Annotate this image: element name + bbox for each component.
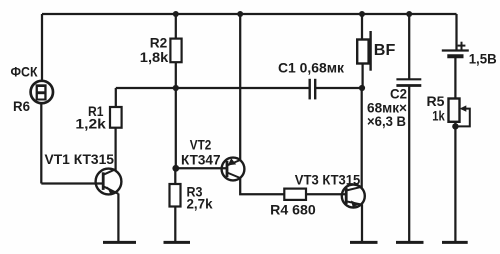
transducer BF — [357, 31, 370, 71]
wire C1 right plate to BF/VT3 junction — [316, 87, 362, 89]
junction dot C1/BF/VT3 collector — [359, 85, 365, 91]
wire top rail — [42, 13, 457, 15]
resistor R2 — [170, 39, 181, 63]
wire VT2 collector down and right to R4 — [240, 178, 284, 195]
svg-text:VT2: VT2 — [190, 136, 212, 152]
R5 wiper arm (rheostat connection) — [455, 109, 469, 127]
resistor R1 — [110, 107, 122, 128]
svg-text:×6,3 В: ×6,3 В — [367, 113, 406, 129]
junction dot node line R1/R2 — [173, 85, 179, 91]
battery plus sign — [458, 42, 466, 50]
svg-text:1,5В: 1,5В — [469, 50, 497, 66]
wire battery branch from rail corner — [455, 14, 457, 50]
wire VT1 emitter down — [117, 194, 119, 243]
junction dot rail/BF — [359, 11, 365, 17]
transistor VT1 (KT315 npn) — [96, 169, 122, 195]
wire BF top (rail to transducer) — [361, 14, 363, 40]
wire VT2 base — [176, 167, 227, 169]
svg-text:R6: R6 — [13, 98, 30, 114]
wire R2 bottom to node line and down to VT2 base junction — [175, 62, 177, 168]
photoresistor R6 circle — [31, 81, 53, 103]
svg-text:R4 680: R4 680 — [270, 202, 316, 218]
wire C2 bottom to ground bar — [408, 86, 410, 242]
junction dot rail/C2 — [406, 11, 412, 17]
wire R5 bottom to ground bar — [454, 122, 456, 243]
wire VT1 base — [41, 182, 103, 184]
svg-text:1,2k: 1,2k — [75, 116, 106, 132]
wire left branch top (rail to photoresistor) — [41, 14, 43, 82]
wire VT3 emitter down — [361, 204, 363, 242]
ground bar VT1 emitter — [103, 241, 136, 244]
wire C2 rail to capacitor — [408, 14, 410, 79]
svg-text:КТ347: КТ347 — [181, 151, 221, 167]
wire VT2 emitter up to rail — [239, 14, 241, 160]
ground bar R5 — [442, 241, 468, 244]
wire battery to R5 — [454, 57, 456, 98]
ground bar C2 — [396, 241, 424, 244]
wire left branch bottom (photoresistor to VT1 base) — [40, 103, 42, 184]
photoresistor R6 inner element — [36, 84, 47, 100]
junction dot rail/VT2 emitter — [237, 11, 243, 17]
capacitor C2 — [396, 79, 421, 85]
capacitor C1 — [310, 79, 316, 100]
transistor VT2 (KT347 pnp) — [222, 158, 245, 181]
svg-text:R2: R2 — [150, 35, 168, 51]
transistor VT3 (KT315 npn) — [342, 185, 365, 208]
R5 wiper arrowhead — [460, 105, 467, 111]
resistor R3 — [170, 184, 181, 207]
R5 wiper junction dot — [452, 123, 458, 129]
svg-text:VT3 КТ315: VT3 КТ315 — [295, 172, 361, 188]
ground bar VT3 emitter — [350, 241, 378, 244]
junction dot rail/R2 — [173, 11, 179, 17]
resistor R4 — [284, 189, 306, 200]
svg-text:ФСК: ФСК — [11, 63, 38, 79]
wire VT3 collector up to junction — [361, 88, 363, 188]
wire R1 top corner from node line — [115, 88, 117, 107]
svg-text:C1 0,68мк: C1 0,68мк — [278, 59, 345, 75]
junction dot VT2 base/R3 — [172, 165, 179, 172]
wire R3 bottom to ground bar — [174, 207, 176, 243]
svg-text:1k: 1k — [432, 107, 445, 123]
wire R2 rail to resistor — [175, 14, 177, 39]
battery GB (1.5 V cell) — [442, 51, 469, 57]
ground bar R3 — [164, 241, 191, 244]
wire R1 bottom to VT1 collector — [114, 128, 116, 171]
svg-text:VT1 КТ315: VT1 КТ315 — [45, 151, 115, 167]
wire R3 junction to resistor — [174, 168, 176, 184]
svg-text:BF: BF — [374, 42, 396, 59]
svg-text:1,8k: 1,8k — [140, 49, 169, 65]
svg-text:2,7k: 2,7k — [187, 195, 213, 211]
wire node line R1/R2 to C1 left plate — [116, 87, 309, 89]
wire R4 to VT3 base — [306, 193, 346, 195]
resistor R5 — [449, 99, 460, 122]
wire BF bottom to junction — [361, 64, 363, 89]
